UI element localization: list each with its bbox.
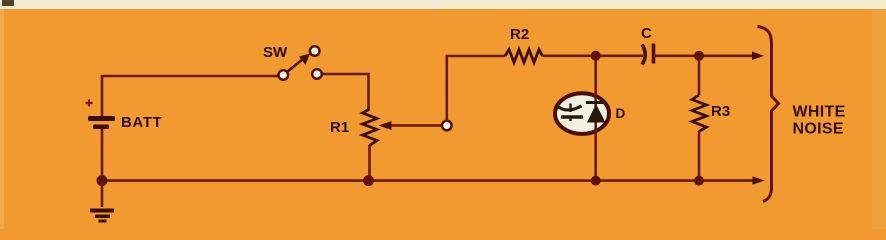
resistor R3 bbox=[692, 95, 707, 132]
svg-text:R2: R2 bbox=[510, 26, 529, 43]
resistor R1 (potentiometer body) bbox=[363, 109, 378, 146]
svg-text:SW: SW bbox=[263, 44, 288, 61]
wire: wiper terminal up and right to R2 bbox=[447, 56, 505, 121]
battery BATT positive plate bbox=[88, 116, 115, 121]
wire: switch lower terminal right then down to R1 bbox=[323, 74, 369, 110]
label D bbox=[616, 106, 626, 121]
diode D envelope circle bbox=[555, 93, 609, 134]
wire: R2 to capacitor C left plate bbox=[543, 54, 644, 57]
svg-text:D: D bbox=[616, 106, 626, 121]
wire: R1 bottom to ground rail bbox=[368, 145, 371, 181]
node: junction C / R3 bbox=[694, 51, 704, 61]
ground bbox=[90, 181, 114, 223]
node: R1 / ground rail junction bbox=[363, 175, 374, 186]
svg-text:BATT: BATT bbox=[121, 114, 162, 131]
wire: ground rail (bottom) with output arrow bbox=[102, 176, 765, 185]
diode D junction symbol (curved plate and bar) bbox=[559, 104, 584, 122]
potentiometer R1 wiper arrow bbox=[379, 121, 443, 130]
wire: R3 bottom to ground rail bbox=[698, 131, 701, 181]
diode D triangle and cathode bar bbox=[586, 103, 606, 123]
node: junction R2 / D bbox=[591, 51, 601, 61]
switch SW upper throw terminal bbox=[310, 46, 320, 56]
battery BATT negative plate bbox=[93, 125, 109, 130]
node: R3 / ground rail junction bbox=[694, 176, 704, 186]
label C bbox=[641, 25, 652, 42]
switch SW left terminal (pole) bbox=[279, 70, 289, 80]
label BATT bbox=[121, 114, 162, 131]
label R1 bbox=[330, 119, 349, 136]
node: D / ground rail junction bbox=[591, 176, 601, 186]
resistor R2 bbox=[505, 50, 543, 63]
node: battery / ground junction bbox=[97, 175, 108, 186]
node: wiper open terminal bbox=[442, 121, 452, 131]
label R3 bbox=[711, 103, 730, 120]
wire: C to output arrow (top) bbox=[654, 52, 765, 61]
svg-text:NOISE: NOISE bbox=[793, 121, 844, 138]
wire: battery positive up and across to switch bbox=[102, 76, 279, 118]
label R2 bbox=[510, 26, 529, 43]
svg-text:R1: R1 bbox=[330, 119, 349, 136]
svg-text:WHITE: WHITE bbox=[793, 104, 846, 121]
wire: junction down to R3 bbox=[698, 56, 701, 95]
svg-text:C: C bbox=[641, 25, 652, 42]
svg-text:R3: R3 bbox=[711, 103, 730, 120]
output brace bbox=[758, 27, 779, 202]
switch SW arm with arrowhead bbox=[288, 54, 311, 72]
switch SW lower throw terminal bbox=[312, 69, 322, 79]
label WHITE NOISE bbox=[793, 104, 846, 138]
capacitor C left (curved) plate bbox=[642, 45, 645, 65]
wire: node above D down through circle to ground rail bbox=[594, 56, 597, 181]
battery BATT plus sign bbox=[86, 100, 93, 107]
label SW bbox=[263, 44, 288, 61]
wire: battery negative down to ground rail bbox=[101, 129, 104, 181]
capacitor C right plate bbox=[652, 44, 656, 64]
